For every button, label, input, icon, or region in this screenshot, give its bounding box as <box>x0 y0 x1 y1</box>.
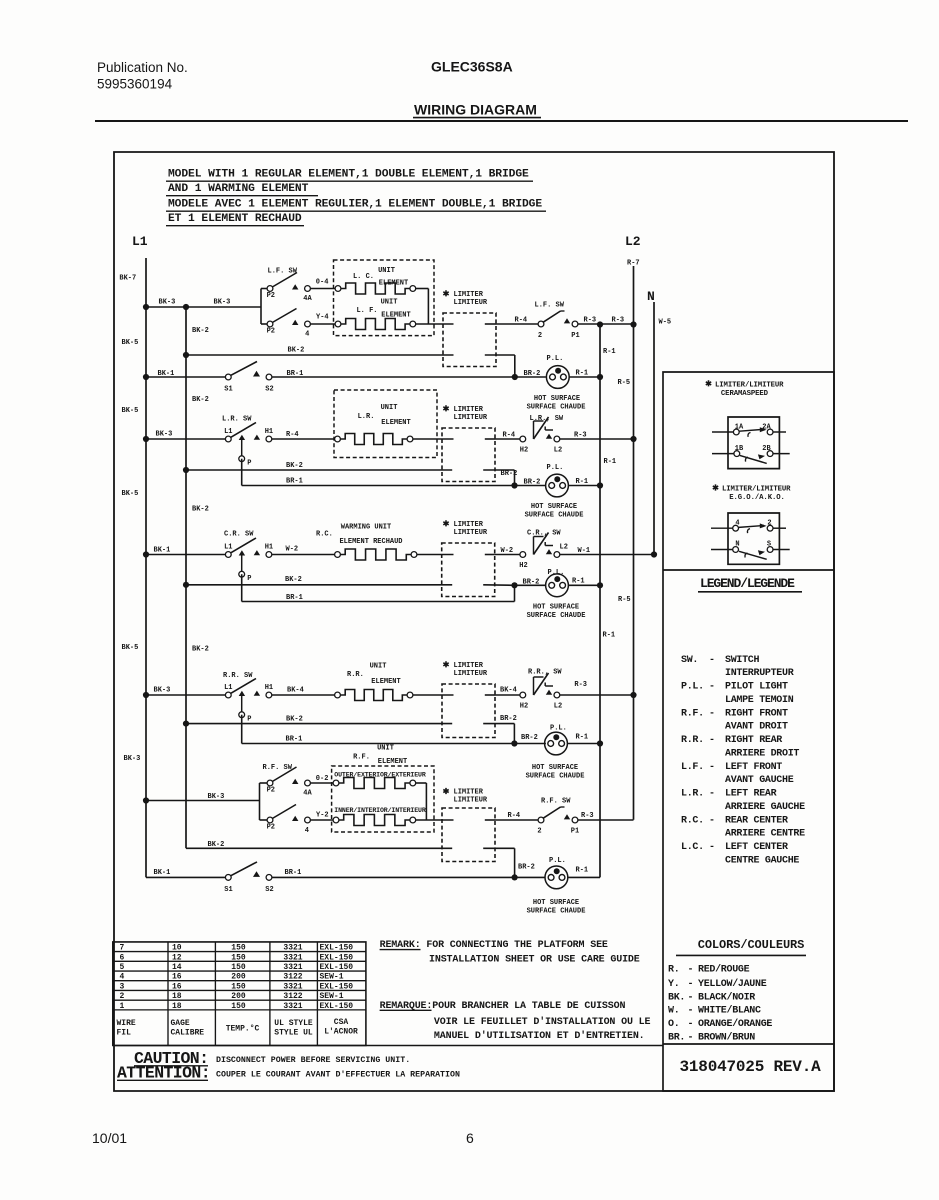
svg-text:SWITCH: SWITCH <box>725 655 760 666</box>
svg-text:ARRIERE DROIT: ARRIERE DROIT <box>725 749 799 760</box>
node junction L2 bus row4 <box>630 692 636 698</box>
svg-text:LEFT FRONT: LEFT FRONT <box>725 762 782 773</box>
wire N bus (W-5) <box>653 302 655 555</box>
svg-text:3321: 3321 <box>283 944 302 953</box>
header publication number <box>97 60 188 92</box>
element L.F. (left front unit element) <box>335 319 416 330</box>
wire label BR-2 row2 <box>524 479 541 487</box>
wire BK-3 row1 feed <box>146 306 261 308</box>
switch L.R. SW (left) L1-H1 <box>224 423 273 468</box>
node junction L1 bus row4 <box>143 692 149 698</box>
svg-text:R-3: R-3 <box>574 432 587 440</box>
svg-text:3321: 3321 <box>283 982 302 991</box>
svg-text:H1: H1 <box>265 684 273 692</box>
wire label BK-1 bottom <box>154 869 171 877</box>
main diagram border box <box>114 152 834 1091</box>
svg-text:BK-5: BK-5 <box>122 407 139 415</box>
svg-text:P.L.: P.L. <box>547 355 564 363</box>
svg-text:-: - <box>688 1006 694 1017</box>
svg-text:P2: P2 <box>267 823 275 831</box>
element R.R. labels <box>347 663 401 687</box>
svg-text:P: P <box>247 460 251 468</box>
svg-text:150: 150 <box>231 963 246 972</box>
element L.R. labels <box>358 404 411 427</box>
svg-text:ELEMENT: ELEMENT <box>371 678 400 686</box>
svg-text:ARRIERE CENTRE: ARRIERE CENTRE <box>725 829 805 840</box>
svg-text:BR-1: BR-1 <box>286 594 303 602</box>
switch R.F. SW (left, double P2) label <box>263 764 293 772</box>
svg-text:HOT SURFACE: HOT SURFACE <box>533 604 579 612</box>
svg-text:150: 150 <box>231 953 246 962</box>
svg-text:3321: 3321 <box>283 953 302 962</box>
svg-text:R.R.: R.R. <box>681 735 704 746</box>
svg-text:4A: 4A <box>303 790 312 798</box>
switch C.R. SW (left) L1-H1 <box>224 538 273 583</box>
svg-text:REAR CENTER: REAR CENTER <box>725 815 788 826</box>
footer date <box>92 1130 127 1146</box>
svg-text:UNIT: UNIT <box>381 404 398 412</box>
svg-text:BK-5: BK-5 <box>122 339 139 347</box>
limiter 5 box (dashed) <box>442 808 495 862</box>
svg-text:MANUEL D'UTILISATION ET D'ENTR: MANUEL D'UTILISATION ET D'ENTRETIEN. <box>434 1030 645 1042</box>
svg-text:LIMITER: LIMITER <box>454 291 484 299</box>
svg-text:L2: L2 <box>554 703 562 711</box>
svg-text:BK-2: BK-2 <box>208 841 225 849</box>
svg-text:R.F. SW: R.F. SW <box>541 798 571 806</box>
svg-text:WHITE/BLANC: WHITE/BLANC <box>698 1005 761 1017</box>
svg-text:SEW-1: SEW-1 <box>320 973 344 982</box>
svg-text:3122: 3122 <box>283 992 302 1001</box>
svg-text:10: 10 <box>172 944 182 953</box>
wire label BK-2 row4 <box>286 716 303 724</box>
svg-text:BK-2: BK-2 <box>285 576 302 584</box>
pilot light P.L. 3 <box>546 569 569 597</box>
footer page number <box>466 1130 474 1146</box>
svg-text:BR-2: BR-2 <box>523 578 540 586</box>
svg-text:LIMITER/LIMITEUR: LIMITER/LIMITEUR <box>715 382 784 390</box>
limiter 3 pilot tap out <box>483 584 514 587</box>
wire BR-1 row2 (P to pilot) <box>242 459 546 486</box>
svg-text:10/01: 10/01 <box>92 1130 127 1146</box>
wire BK-2 row1 (bus to limiter 1) <box>186 354 454 356</box>
node junction pilot tap row2 <box>511 482 517 488</box>
wire 0-4 (4A to L.C. element) <box>310 278 335 288</box>
colors title <box>676 938 806 955</box>
node junction L1 bus row5 <box>143 797 149 803</box>
wire label BK-5 (3) <box>122 490 139 498</box>
wire BK-1 row3 feed <box>146 547 226 555</box>
svg-text:ELEMENT: ELEMENT <box>378 758 407 766</box>
svg-text:WIRING DIAGRAM: WIRING DIAGRAM <box>414 102 537 118</box>
svg-text:UNIT: UNIT <box>370 663 387 671</box>
svg-text:R.F.: R.F. <box>681 708 704 719</box>
svg-text:BR-1: BR-1 <box>285 869 302 877</box>
wire label BK-5 (4) <box>122 644 139 652</box>
element R.F. outer (right front outer element) <box>333 778 416 789</box>
wire label BK-7 <box>119 275 136 283</box>
wire BK-3 row5 feed <box>146 793 260 801</box>
svg-text:DISCONNECT POWER BEFORE SERVIC: DISCONNECT POWER BEFORE SERVICING UNIT. <box>216 1056 410 1065</box>
switch L.F. SW (left) link bar <box>261 289 267 325</box>
element box L.C./L.F. unit (dashed) <box>334 260 435 336</box>
wire label R-1 seg4 <box>576 867 589 875</box>
svg-text:P2: P2 <box>267 292 275 300</box>
svg-text:SURFACE CHAUDE: SURFACE CHAUDE <box>525 512 584 520</box>
svg-text:R.F. SW: R.F. SW <box>263 764 293 772</box>
label HOT SURFACE row4 <box>526 764 585 781</box>
switch L.F. SW (left, double P2) label <box>268 268 298 276</box>
wire label BK-3 row1 b <box>214 299 231 307</box>
wire R-4 row2 (limiter to H2) <box>495 432 520 440</box>
svg-text:INNER/INTERIOR/INTERIEUR: INNER/INTERIOR/INTERIEUR <box>334 807 426 814</box>
switch R.F. SW (right) 2-P1 <box>537 807 579 836</box>
svg-text:STYLE UL: STYLE UL <box>274 1029 313 1038</box>
svg-text:0-2: 0-2 <box>316 775 329 783</box>
svg-text:Y.: Y. <box>668 979 679 990</box>
svg-text:Y-4: Y-4 <box>316 314 329 322</box>
svg-text:200: 200 <box>231 973 246 982</box>
svg-text:S1: S1 <box>224 886 232 894</box>
limiter 5 pilot tap elbow <box>483 848 514 877</box>
svg-text:L.F.: L.F. <box>681 762 704 773</box>
svg-text:FIL: FIL <box>117 1029 132 1038</box>
svg-text:12: 12 <box>172 953 182 962</box>
wire join L.C./L.F. outputs <box>416 289 454 325</box>
svg-text:BK-5: BK-5 <box>122 490 139 498</box>
svg-text:LEFT REAR: LEFT REAR <box>725 789 777 800</box>
svg-text:CSA: CSA <box>334 1018 349 1027</box>
colors entries <box>668 964 772 1044</box>
wire R-1 row1 (pilot to R-1 bus) <box>569 370 600 378</box>
limiter ceramaspeed contact arms <box>740 427 767 463</box>
svg-text:R-1: R-1 <box>576 478 589 486</box>
svg-text:-: - <box>709 789 715 800</box>
svg-text:R-3: R-3 <box>581 812 594 820</box>
svg-text:HOT SURFACE: HOT SURFACE <box>533 899 579 907</box>
svg-text:BR-2: BR-2 <box>521 734 538 742</box>
node junction R-1 bus row3 pilot <box>597 582 603 588</box>
caution text FR <box>117 1064 460 1083</box>
wire label BK-2 seg2 <box>192 396 209 404</box>
limiter ceramaspeed label <box>706 380 784 398</box>
svg-text:2B: 2B <box>762 445 771 453</box>
limiter 1 box (dashed) <box>443 313 496 367</box>
wire BK-4 row4 (H1 to element) <box>272 687 335 696</box>
svg-text:SURFACE CHAUDE: SURFACE CHAUDE <box>527 404 586 412</box>
svg-text:LIMITEUR: LIMITEUR <box>454 299 488 307</box>
wire element to limiter 3 <box>417 554 454 556</box>
wire BR-1 row3 (P down and to pilot) <box>242 574 515 601</box>
svg-text:ARRIERE GAUCHE: ARRIERE GAUCHE <box>725 802 805 813</box>
svg-text:-: - <box>709 682 715 693</box>
limiter 5 main contact out <box>485 819 495 821</box>
svg-text:Publication No.: Publication No. <box>97 60 188 75</box>
svg-text:BK-2: BK-2 <box>192 506 209 514</box>
limiter 3 label <box>443 520 488 537</box>
svg-text:5: 5 <box>120 963 125 972</box>
svg-text:R-5: R-5 <box>618 596 631 604</box>
node junction L1 bus row2 <box>143 436 149 442</box>
svg-text:SW.: SW. <box>681 655 698 666</box>
svg-text:W-2: W-2 <box>286 546 299 554</box>
svg-text:1: 1 <box>120 1002 125 1011</box>
wire label W-5 <box>659 319 672 327</box>
switch L.R. SW (right) label <box>530 415 564 423</box>
wire label BK-2 row1 <box>288 347 305 355</box>
element R.F. inner (right front inner element) <box>333 815 416 826</box>
limiter 2 main contact out <box>485 438 495 440</box>
limiter 1 pilot tap elbow <box>485 355 515 377</box>
svg-text:LIMITEUR: LIMITEUR <box>454 414 488 422</box>
svg-text:P1: P1 <box>571 332 579 340</box>
switch R.R. SW (left) L1-H1 <box>224 679 273 724</box>
svg-text:BROWN/BRUN: BROWN/BRUN <box>698 1031 755 1043</box>
node junction R-1 bus row2 pilot <box>597 482 603 488</box>
element R.F. unit labels above <box>353 745 407 766</box>
switch L.F. SW (right) 2-P1 <box>538 311 580 340</box>
wire BR-1 bottom (S2 to pilot) <box>272 876 546 878</box>
svg-text:UNIT: UNIT <box>381 299 398 307</box>
svg-text:5995360194: 5995360194 <box>97 77 173 92</box>
svg-text:R.: R. <box>668 965 679 976</box>
element L.C. (left center unit element) <box>335 283 416 294</box>
svg-text:P1: P1 <box>571 828 579 836</box>
switch S1 S2 labels row1 <box>224 385 273 393</box>
svg-text:C.R., SW: C.R., SW <box>527 530 561 538</box>
svg-text:COLORS/COULEURS: COLORS/COULEURS <box>698 938 805 952</box>
svg-text:H1: H1 <box>265 544 273 552</box>
wire Y-4 (4 to L.F. element) <box>310 314 335 324</box>
wire label BR-1 row4 <box>286 736 303 744</box>
wire BK-4 row4 (limiter to H2) <box>495 687 520 696</box>
svg-text:AVANT GAUCHE: AVANT GAUCHE <box>725 775 794 786</box>
svg-text:LIMITEUR: LIMITEUR <box>454 797 488 805</box>
pilot light P.L. 1 <box>546 355 569 388</box>
svg-text:ELEMENT RECHAUD: ELEMENT RECHAUD <box>339 538 402 546</box>
limiter 3 main contact out <box>485 554 495 556</box>
svg-text:E.G.O./A.K.O.: E.G.O./A.K.O. <box>729 494 785 502</box>
svg-text:L.R.: L.R. <box>681 789 704 800</box>
svg-text:GLEC36S8A: GLEC36S8A <box>431 59 513 75</box>
caution separator line <box>114 1045 663 1047</box>
wire BK-3 row4 feed <box>146 687 226 696</box>
wire Y-2 (4 to inner element) <box>310 811 333 820</box>
wire BK-2 bus (second vertical) <box>185 307 187 848</box>
svg-text:BK-2: BK-2 <box>192 396 209 404</box>
svg-text:BR-2: BR-2 <box>500 715 517 723</box>
svg-text:R-3: R-3 <box>612 317 625 325</box>
svg-text:L2: L2 <box>560 544 568 552</box>
element R.R. (right rear unit element) <box>335 690 413 701</box>
svg-text:-: - <box>688 1019 694 1030</box>
svg-text:EXL-150: EXL-150 <box>320 963 354 972</box>
wire label BK-2 row5 <box>208 841 225 849</box>
svg-text:L1: L1 <box>224 684 232 692</box>
limiter EGO/AKO contact arms <box>739 523 767 559</box>
svg-text:L1: L1 <box>224 544 232 552</box>
limiter 4 pilot tap elbow <box>483 724 514 744</box>
svg-text:R-1: R-1 <box>576 867 589 875</box>
node junction L2 bus row1 <box>630 321 636 327</box>
pilot light P.L. 4 <box>545 725 568 755</box>
label HOT SURFACE row5 <box>527 899 586 916</box>
svg-text:S2: S2 <box>265 385 273 393</box>
svg-text:BK-3: BK-3 <box>156 431 173 439</box>
wire label BR-2 row5 <box>518 864 535 872</box>
svg-text:L'ACNOR: L'ACNOR <box>324 1028 358 1037</box>
svg-text:BK-3: BK-3 <box>214 299 231 307</box>
wire W-2 row3 (H1 to element) <box>272 546 335 555</box>
svg-text:R.C.: R.C. <box>316 531 333 539</box>
svg-text:R-4: R-4 <box>286 431 299 439</box>
svg-text:R.R., SW: R.R., SW <box>528 669 562 677</box>
element R.F. inner label <box>334 807 426 814</box>
svg-text:R-1: R-1 <box>572 577 585 585</box>
limiter ceramaspeed detail box <box>728 417 779 469</box>
wire label R-1 seg3 <box>603 632 616 640</box>
svg-text:LIMITER: LIMITER <box>454 662 484 670</box>
svg-text:R.F.: R.F. <box>353 753 370 761</box>
svg-text:S1: S1 <box>224 385 232 393</box>
svg-text:2: 2 <box>120 992 125 1001</box>
wire R-1 row5 (pilot to R-1 bus corner) <box>568 876 600 878</box>
svg-text:7: 7 <box>120 944 125 953</box>
svg-text:BK-7: BK-7 <box>119 275 136 283</box>
wire BK-2 row2 (bus to limiter 2) <box>186 469 452 471</box>
title text block <box>166 169 546 226</box>
remark text EN <box>380 940 640 965</box>
svg-text:W.: W. <box>668 1006 679 1017</box>
svg-text:R.R.: R.R. <box>347 671 364 679</box>
svg-text:LEGEND/LEGENDE: LEGEND/LEGENDE <box>700 576 795 591</box>
switch R.F. SW (right) label <box>541 798 571 806</box>
svg-text:150: 150 <box>231 1002 246 1011</box>
svg-text:P.L.: P.L. <box>550 725 567 733</box>
node junction pilot tap row1 <box>512 374 518 380</box>
wire BR-1 row1 (S2 to pilot) <box>272 376 546 378</box>
wire gauge table <box>113 942 366 1046</box>
svg-text:-: - <box>709 708 715 719</box>
wire label BK-2 seg1 <box>192 327 209 335</box>
svg-text:BK-3: BK-3 <box>208 793 225 801</box>
element L.F. labels <box>356 299 410 320</box>
svg-text:TEMP.°C: TEMP.°C <box>226 1025 260 1034</box>
svg-text:3122: 3122 <box>283 973 302 982</box>
svg-text:16: 16 <box>172 973 182 982</box>
svg-text:3321: 3321 <box>283 1002 302 1011</box>
wire BR-1 row4 (P to pilot) <box>242 715 546 744</box>
svg-text:BK-1: BK-1 <box>154 547 171 555</box>
wire R-4 row1 (limiter to switch) <box>496 317 538 325</box>
svg-text:H2: H2 <box>520 703 528 711</box>
svg-text:BR-1: BR-1 <box>287 370 304 378</box>
svg-text:BR-1: BR-1 <box>286 736 303 744</box>
wire label BK-2 seg4 <box>192 646 209 654</box>
svg-text:2: 2 <box>767 519 771 527</box>
svg-text:-: - <box>709 842 715 853</box>
switch R.F. SW upper pole P2-4A <box>267 767 313 798</box>
svg-text:AVANT DROIT: AVANT DROIT <box>725 722 788 733</box>
node N label <box>647 289 655 304</box>
switch S1/S2 row1 <box>146 362 272 380</box>
wire BK-2 row5 (bus corner to limiter 5) <box>186 847 452 849</box>
svg-text:150: 150 <box>231 982 246 991</box>
wire W-1 row3 (L2 to N bus) <box>560 547 654 555</box>
svg-text:BK-2: BK-2 <box>288 347 305 355</box>
svg-text:4A: 4A <box>303 295 312 303</box>
svg-text:COUPER LE COURANT AVANT D'EFFE: COUPER LE COURANT AVANT D'EFFECTUER LA R… <box>216 1070 460 1080</box>
wire BR-2 row3 (tap to pilot) <box>515 578 546 586</box>
svg-text:L. C.: L. C. <box>353 273 374 281</box>
legend panel box <box>663 372 834 1091</box>
svg-text:BR-2: BR-2 <box>501 470 518 478</box>
limiter EGO/AKO label <box>713 484 791 502</box>
wire BK-3 row2 feed <box>146 431 226 440</box>
svg-text:200: 200 <box>231 992 246 1001</box>
switch S1/S2 bottom <box>146 862 274 894</box>
limiter ceramaspeed terminals <box>712 424 790 457</box>
limiter 5 label <box>443 788 488 805</box>
svg-text:BR-2: BR-2 <box>518 864 535 872</box>
label HOT SURFACE row3 <box>527 604 586 620</box>
wire W-2 row3 (limiter to H2) <box>495 547 520 555</box>
svg-text:SURFACE CHAUDE: SURFACE CHAUDE <box>527 908 586 916</box>
wire join R.F. outputs <box>416 783 454 820</box>
svg-text:BK-3: BK-3 <box>124 755 141 763</box>
svg-text:L.C.: L.C. <box>681 842 704 853</box>
node junction L1 bus row1 <box>143 304 149 310</box>
element box R.F. unit (dashed) <box>332 766 434 832</box>
pilot light P.L. 5 <box>545 857 568 889</box>
element L.R. (left rear unit element) <box>335 434 413 445</box>
node L1 label <box>132 234 148 249</box>
svg-text:16: 16 <box>172 982 182 991</box>
header title WIRING DIAGRAM <box>413 102 541 118</box>
header rule <box>95 120 908 122</box>
switch R.F. SW lower pole P2-4 <box>267 805 311 835</box>
svg-text:LIMITEUR: LIMITEUR <box>454 529 488 537</box>
svg-text:BK-3: BK-3 <box>154 687 171 695</box>
header model number GLEC36S8A <box>431 59 513 75</box>
svg-text:P2: P2 <box>267 786 275 794</box>
svg-text:ELEMENT: ELEMENT <box>381 419 410 427</box>
svg-text:N: N <box>647 289 655 304</box>
wire label BK-2 row2 <box>286 462 303 470</box>
wire element to limiter 4 <box>413 694 454 696</box>
switch R.R. SW (left) label <box>223 672 253 680</box>
wire R-1 row3 (pilot to R-1 bus) <box>568 577 600 585</box>
wire label R-7 <box>627 260 640 268</box>
limiter 4 box (dashed) <box>442 684 495 738</box>
switch L.F. SW lower pole P2-4 <box>267 309 311 339</box>
svg-text:R.C.: R.C. <box>681 815 704 826</box>
wire L1 bus (BK) <box>145 258 147 877</box>
svg-text:-: - <box>709 655 715 666</box>
limiter 2 label <box>443 405 488 422</box>
wire R-3 row1 (P1 to L2 bus) <box>578 317 634 325</box>
svg-text:P.L.: P.L. <box>549 857 566 865</box>
wire label BR-1 row2 <box>286 478 303 486</box>
svg-text:LIMITEUR: LIMITEUR <box>454 670 488 678</box>
svg-text:R-3: R-3 <box>574 681 587 689</box>
wire label BK-1 row1 <box>158 370 175 378</box>
wire label BK-5 (2) <box>122 407 139 415</box>
svg-text:INTERRUPTEUR: INTERRUPTEUR <box>725 668 794 679</box>
svg-text:Y-2: Y-2 <box>316 811 329 819</box>
svg-text:EXL-150: EXL-150 <box>320 1002 354 1011</box>
svg-text:CALIBRE: CALIBRE <box>171 1029 205 1038</box>
wire label BR-2 row1 <box>524 370 541 378</box>
